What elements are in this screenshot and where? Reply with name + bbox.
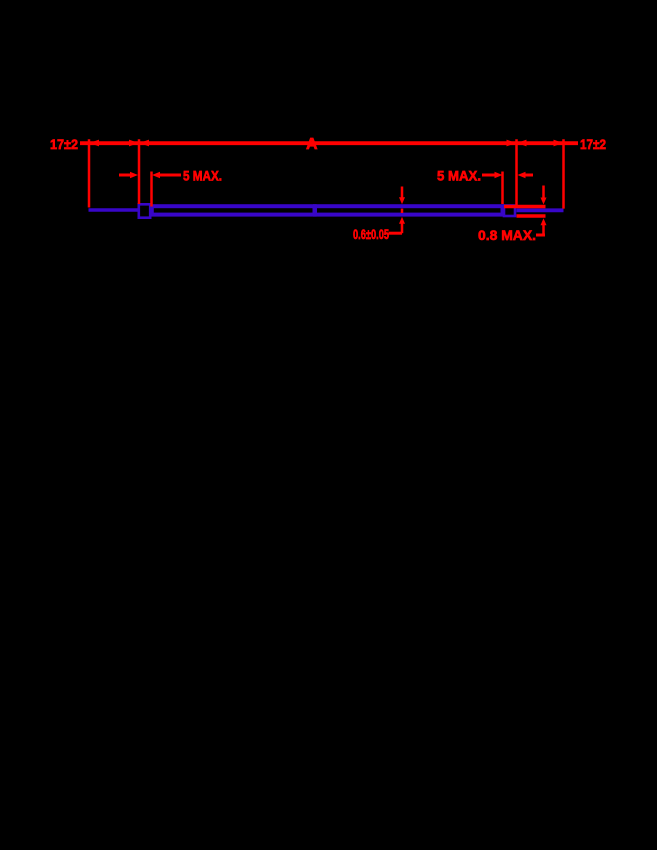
extension line x=516.5 (body right end) (515, 139, 518, 207)
0.8 dim: extension bar at lead top (504, 205, 546, 209)
svg-text:0.6±0.05: 0.6±0.05 (353, 226, 389, 242)
0.8 dim: down arrow at x=543.5 (542, 186, 545, 199)
extension line x=89 (left lead end) (88, 139, 91, 207)
0.8 dim: up arrow at x=543.5 (541, 218, 547, 225)
extension line x=563.5 (right lead end) (562, 139, 565, 208)
extension line x=139 (body left end) (138, 139, 141, 204)
svg-text:17±2: 17±2 (580, 136, 606, 152)
svg-text:A: A (306, 136, 318, 153)
arrowhead left-pointing at x=140 (140, 140, 150, 147)
0.8 dim: extension bar at lead bottom (517, 214, 546, 218)
svg-text:0.8 MAX.: 0.8 MAX. (478, 227, 536, 243)
0.6 dim: vertical through body gap (401, 209, 404, 213)
5 MAX right: outside arrow pointing left with stub (518, 172, 526, 179)
dimension line top (red) (80, 141, 578, 145)
5 MAX left: outside arrow pointing left with leader (152, 172, 160, 179)
arrowhead left-pointing at x=89 (90, 140, 100, 147)
arrowhead left-pointing at x=517 (517, 140, 527, 147)
0.6 dim: leader to text (389, 232, 403, 235)
svg-text:5 MAX.: 5 MAX. (183, 168, 222, 184)
0.6 dim: down arrow at x=402 (401, 187, 404, 199)
svg-text:5 MAX.: 5 MAX. (437, 168, 481, 184)
5 MAX right: leader and arrow pointing right (482, 174, 495, 177)
0.8 dim: leader to text (536, 234, 545, 237)
lead wire left (blue) (89, 208, 141, 211)
end cap left (blue outline box) (139, 204, 150, 217)
5 MAX right: extension line x=502.5 (501, 172, 504, 205)
arrowhead right-pointing at x=139 (129, 140, 139, 147)
body section left (blue outline) (152, 206, 315, 214)
0.6 dim: up arrow at x=402 (399, 217, 405, 224)
5 MAX left: extension line x=151.5 (150, 172, 153, 207)
end cap right (blue outline box) (504, 206, 515, 217)
svg-text:17±2: 17±2 (50, 136, 78, 152)
5 MAX left: outside arrow pointing right (119, 174, 131, 177)
lead wire right (blue) (517, 208, 564, 212)
body section right (blue outline) (315, 206, 503, 214)
arrowhead right-pointing at x=563 (554, 140, 564, 147)
arrowhead right-pointing at x=516 (507, 140, 517, 147)
